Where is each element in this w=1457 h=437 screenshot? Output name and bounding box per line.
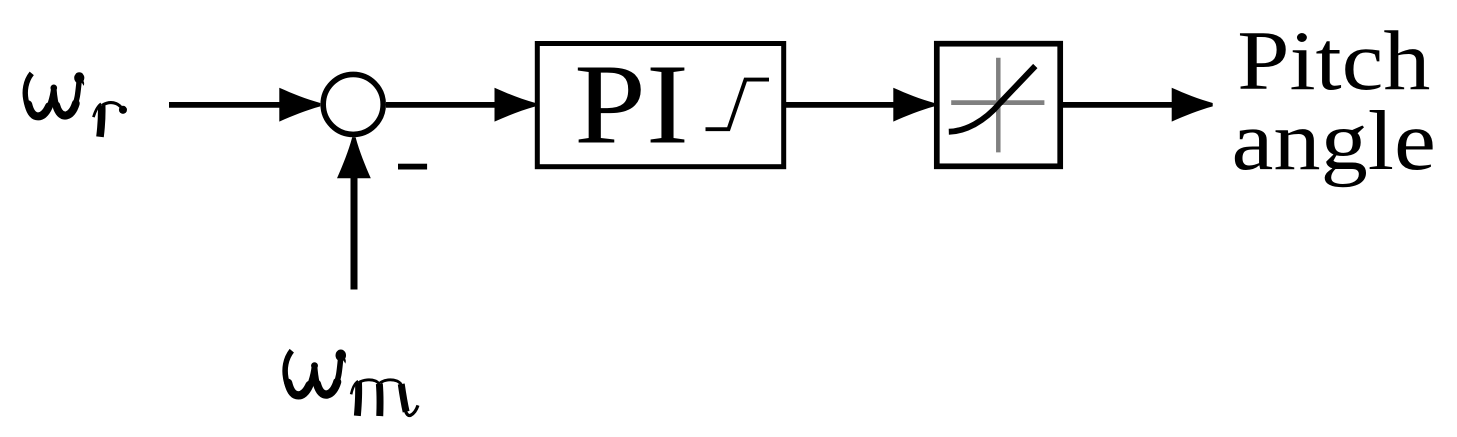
wire W2: feedback omega_m up into summing junction [337, 137, 371, 289]
PI controller block U1 [537, 44, 783, 167]
wire W5: limiter block to output [1063, 88, 1213, 122]
node omega_m feedback label [285, 350, 418, 417]
node output label: Pitch angle [1232, 14, 1436, 188]
summing junction S1 [323, 74, 383, 134]
svg-text:PI: PI [574, 41, 689, 168]
anti-windup saturation glyph inside PI block [706, 80, 770, 130]
saturation curve inside limiter [949, 66, 1036, 132]
node omega_r input label [25, 72, 127, 137]
gray horizontal axis inside limiter [951, 100, 1044, 105]
gray vertical axis inside limiter [996, 58, 1001, 153]
minus sign at feedback input [398, 164, 427, 170]
wire W1: omega_r to summing junction [169, 88, 320, 122]
wire W4: PI block to limiter block [786, 88, 934, 122]
wire W3: summing junction to PI block [386, 88, 536, 122]
svg-text:angle: angle [1232, 95, 1436, 188]
saturation limiter block U2 [937, 44, 1060, 167]
